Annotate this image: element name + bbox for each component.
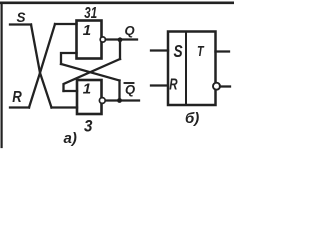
- svg-text:1: 1: [83, 22, 91, 39]
- node Q junction: [118, 37, 123, 42]
- pin R label: [169, 74, 177, 92]
- svg-text:а): а): [64, 130, 77, 147]
- wire feedback Q diagonal: [64, 59, 121, 91]
- net Qbar overline: [125, 82, 134, 84]
- wire R diagonal to upper gate: [29, 24, 55, 108]
- gate Э2 label 1: [83, 81, 91, 98]
- gate Э1 output bubble: [100, 37, 105, 42]
- trigger inverted output bubble: [213, 83, 220, 90]
- wire feedback Qbar vertical rise: [118, 81, 120, 101]
- gate Э1 (NOR, element 1) body: [77, 21, 102, 59]
- gate Э2 reference label Э2: [84, 118, 93, 136]
- svg-text:б): б): [185, 110, 199, 127]
- wire Q output: [106, 38, 137, 40]
- wire feedback Qbar diagonal: [61, 64, 120, 81]
- caption b): [185, 110, 199, 127]
- gate Э1 reference label Э1: [84, 3, 97, 21]
- wire S diagonal to lower gate: [31, 25, 52, 108]
- svg-text:T: T: [197, 42, 204, 59]
- gate Э1 label 1: [83, 22, 91, 39]
- node Qbar junction: [117, 98, 122, 103]
- wire S to gate Э2 input 2: [52, 106, 78, 108]
- svg-text:31: 31: [84, 3, 97, 21]
- figure left border (decorative): [1, 3, 3, 147]
- svg-text:3: 3: [84, 118, 93, 136]
- gate Э2 output bubble: [99, 98, 105, 104]
- pin T label: [197, 42, 204, 59]
- trigger U1 (RS flip-flop block) body: [168, 32, 216, 106]
- wire Qbar output: [106, 99, 139, 101]
- figure top border (decorative): [0, 1, 234, 4]
- trigger U1 section divider: [185, 32, 187, 106]
- svg-text:R: R: [12, 89, 22, 106]
- gate Э2 (NOR, element 2) body: [77, 80, 102, 114]
- wire S input horizontal: [10, 23, 31, 25]
- net Q label: [125, 23, 135, 38]
- wire input R of trigger: [151, 84, 168, 86]
- pin S label: [174, 42, 183, 61]
- wire R to gate E1 input 1: [55, 23, 77, 25]
- node R input label: [12, 89, 22, 106]
- wire output Q of trigger: [216, 50, 230, 52]
- wire input S of trigger: [151, 49, 168, 51]
- svg-text:R: R: [169, 74, 177, 92]
- svg-text:Q: Q: [125, 23, 135, 38]
- wire feedback Qbar to gate Э1 input 2 horizontal: [61, 53, 77, 64]
- wire feedback Q to gate Э2 input (vertical drop): [119, 41, 121, 60]
- caption a): [64, 130, 77, 147]
- svg-text:S: S: [17, 10, 26, 25]
- node S input label: [17, 10, 26, 25]
- wire R input horizontal: [10, 106, 29, 108]
- svg-text:Q: Q: [125, 82, 135, 97]
- svg-text:1: 1: [83, 81, 91, 98]
- svg-text:S: S: [174, 42, 183, 61]
- wire feedback Q into gate Э2 input 1: [64, 90, 78, 92]
- net Qbar label: [125, 82, 135, 97]
- wire output Qbar of trigger: [220, 85, 230, 87]
